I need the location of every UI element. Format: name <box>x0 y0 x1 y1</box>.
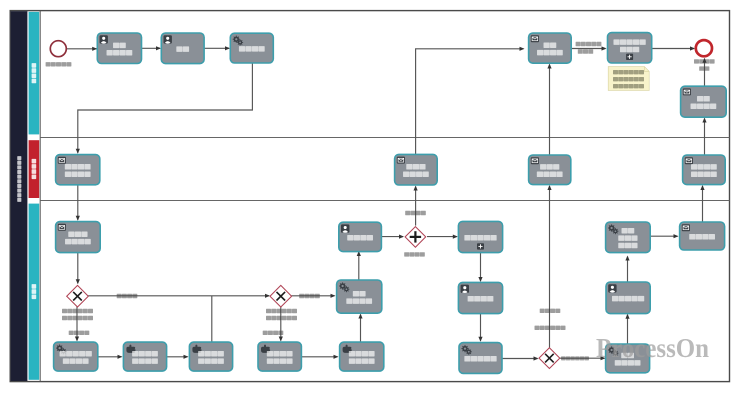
task 生成收貨單入庫單 <box>606 222 651 253</box>
lane divider 2 <box>40 200 729 202</box>
wire 商城簽收貨子流程 to end event <box>652 48 694 50</box>
wire 手動處理異常訂單2 to 生成銷售訂單 <box>360 315 362 342</box>
task ERP端收貨 <box>606 282 650 314</box>
wire 訂單完成狀態轉發 up to 處理訂單狀態2 <box>704 119 706 155</box>
wire 處理訂單狀態2 up to end event <box>704 59 706 86</box>
gateway G4 parallel <box>405 227 426 248</box>
label 結束 <box>699 66 709 70</box>
task 生成待收貨單 <box>606 344 650 373</box>
task 手動配置接單部門 <box>258 342 301 371</box>
wire G4 推送狀態 up to 已發貨狀態轉發 <box>415 187 417 226</box>
label 商城系統收貨 <box>535 326 566 330</box>
task 訂單發貨 <box>458 282 502 313</box>
task 手動配置商品BOM <box>123 342 166 371</box>
label 並行閘道 <box>404 252 425 256</box>
wire 銷售系統轉發訂單 to 供應鏈商城訂單 <box>77 185 79 220</box>
label 訂單完成 <box>694 59 715 63</box>
label 可收貨 <box>578 49 593 53</box>
lane header 銷售系統 <box>29 140 40 198</box>
wire 生成訂單 to 銷售系統轉發訂單 <box>78 63 253 153</box>
wire 配送中狀態轉發 up to 處理訂單狀態 <box>549 65 551 155</box>
task 商城選購商品 <box>97 33 141 64</box>
task 配送中狀態轉發 <box>529 155 571 185</box>
task 已發貨狀態轉發 <box>395 154 438 185</box>
wire 訂單發貨 to 生成發貨單 <box>480 314 482 341</box>
wire 生成收貨單入庫單 to 推送狀態 <box>650 235 677 237</box>
wire 處理訂單狀態 to 商城簽收貨子流程 <box>571 48 605 50</box>
wire 推送狀態 up to 訂單完成狀態轉發 <box>702 186 704 222</box>
wire G3 商城系統收貨 up to 配送中狀態轉發 <box>549 186 551 348</box>
task 銷售系統轉發訂單 <box>56 155 100 185</box>
lane header separator line <box>39 11 41 382</box>
label 匹配成功G2 <box>299 294 320 298</box>
wire start to 商城選購商品 <box>67 48 97 50</box>
task 推送狀態 <box>680 222 725 250</box>
wire 手動配置接單部門 to 手動處理異常訂單2 <box>302 356 338 358</box>
task 供應鏈商城訂單 <box>56 222 101 253</box>
label 匹配發貨部門 <box>266 316 297 320</box>
task 揀貨子流程 <box>458 221 502 252</box>
label 根據倉庫配置 <box>266 309 297 313</box>
wire 供應鏈商城訂單 to gateway G1 <box>77 253 79 284</box>
label 匹配成功G1 <box>117 294 138 298</box>
end event 訂單完成結束 <box>696 40 712 56</box>
lane header 供應鏈 <box>29 204 40 380</box>
wire 手動處理異常訂單 up to G2 flow <box>211 296 213 342</box>
pool header bar 加盟連鎖體系訂單流程 <box>11 11 28 381</box>
wire 生成發貨單 to G3 <box>502 358 537 360</box>
gateway G2 exclusive <box>270 285 292 307</box>
task 自動轉流到異常訂單 <box>54 342 98 371</box>
task 匯總訂單 <box>339 222 382 251</box>
label ERP系統收貨 <box>561 356 589 360</box>
label 推送狀態G4 <box>405 211 426 215</box>
label 推送狀態G3 <box>540 309 561 313</box>
task 手動處理異常訂單 <box>189 342 232 371</box>
wire 匯總訂單 to parallel gateway G4 <box>382 236 403 238</box>
label 匹配失敗G2 <box>263 331 284 335</box>
task 生成訂單 <box>230 33 273 63</box>
wire G4 to 揀貨子流程 <box>427 236 457 238</box>
wire 商城選購商品 to 訂購 <box>142 47 160 49</box>
start event 加盟經營商 <box>50 41 66 57</box>
lane header 會員商城 <box>29 12 40 134</box>
svg-text:ProcessOn: ProcessOn <box>596 332 709 363</box>
task 處理訂單狀態 <box>529 33 572 63</box>
wire ERP端收貨 up to 生成收貨單入庫單 <box>627 257 629 282</box>
wire G2 匹配成功 to 生成銷售訂單 <box>291 295 334 297</box>
label 匹配失敗G1 <box>69 331 90 335</box>
wire 手動配置商品BOM to 手動處理異常訂單 <box>167 356 188 358</box>
wire 訂購 to 生成訂單 <box>204 47 229 49</box>
label 配送中狀態 <box>576 42 602 46</box>
wire 揀貨子流程 to 訂單發貨 <box>480 253 482 281</box>
wire 已發貨狀態轉發 up and right to 處理訂單狀態 <box>416 49 524 154</box>
label 加盟經營商 <box>46 62 72 66</box>
note 子流程包含回調ERP更新商城訂單狀態 <box>608 67 649 91</box>
task 生成銷售訂單 <box>337 280 382 313</box>
wire G3 ERP系統收貨 to 生成待收貨單 <box>560 357 605 359</box>
task 手動處理異常訂單2 <box>340 342 384 371</box>
wire G2 匹配失敗 to 手動配置接單部門 <box>280 307 282 341</box>
label 根據BOM配置 <box>62 309 93 313</box>
task 處理訂單狀態2 <box>681 86 727 117</box>
wire 生成待收貨單 up to ERP端收貨 <box>627 315 629 344</box>
wire G1 匹配失敗 to 自動轉流到異常訂單 <box>76 306 78 341</box>
wire 自動轉流到異常訂單 to 手動配置商品BOM <box>98 356 122 358</box>
wire 生成銷售訂單 to 匯總訂單 <box>358 252 360 280</box>
task 生成發貨單 <box>459 343 502 374</box>
task 訂購 <box>161 33 204 64</box>
gateway G1 exclusive <box>67 285 89 307</box>
task 商城簽收貨子流程 <box>608 33 652 63</box>
task 訂單完成狀態轉發 <box>683 155 726 185</box>
gateway G3 exclusive <box>539 348 560 369</box>
label 匹配光鏈物料 <box>62 316 93 320</box>
lane divider 1 <box>40 137 729 139</box>
wire G1 匹配成功 to gateway G2 <box>87 295 269 297</box>
